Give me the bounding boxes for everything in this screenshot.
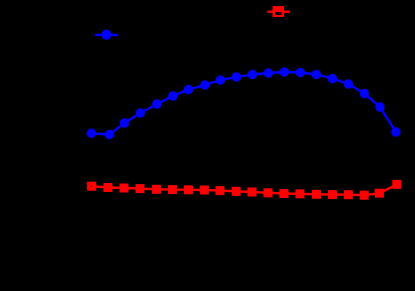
- legend red line sample: [267, 10, 290, 12]
- red series markers: [89, 182, 399, 198]
- red series line: [92, 184, 397, 195]
- blue series markers: [89, 69, 399, 137]
- blue series line: [92, 72, 397, 135]
- legend blue line sample: [95, 34, 118, 36]
- legend red square marker: [273, 6, 284, 17]
- legend blue circle marker: [101, 30, 111, 40]
